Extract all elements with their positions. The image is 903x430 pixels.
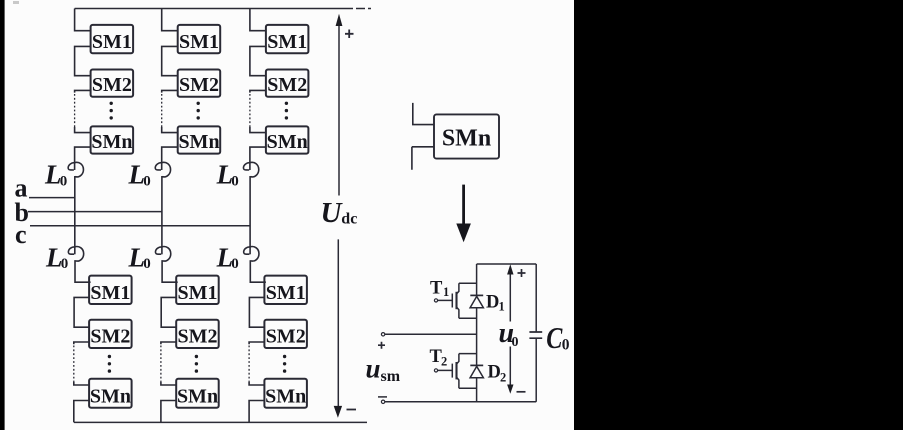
svg-text:SM1: SM1 xyxy=(92,31,132,53)
svg-text:SM2: SM2 xyxy=(266,326,306,348)
svg-text:sm: sm xyxy=(381,368,401,385)
svg-text:SMn: SMn xyxy=(265,386,306,408)
svg-text:D: D xyxy=(488,363,501,383)
svg-text:SMn: SMn xyxy=(90,386,131,408)
svg-text:0: 0 xyxy=(143,173,151,189)
svg-text:SMn: SMn xyxy=(267,131,308,153)
svg-text:0: 0 xyxy=(60,173,67,189)
svg-text:SMn: SMn xyxy=(442,126,491,152)
svg-text:1: 1 xyxy=(443,285,449,299)
svg-text:1: 1 xyxy=(499,300,505,314)
svg-text:SM2: SM2 xyxy=(267,74,307,96)
svg-text:SMn: SMn xyxy=(178,131,219,153)
svg-text:SM2: SM2 xyxy=(92,74,132,96)
svg-text:0: 0 xyxy=(562,336,570,353)
svg-text:u: u xyxy=(366,354,381,384)
svg-text:2: 2 xyxy=(441,355,447,369)
svg-text:SM1: SM1 xyxy=(90,282,130,304)
svg-text:SMn: SMn xyxy=(177,386,218,408)
svg-text:0: 0 xyxy=(231,173,239,189)
svg-text:D: D xyxy=(486,292,499,312)
svg-text:SMn: SMn xyxy=(91,131,132,153)
svg-text:SM1: SM1 xyxy=(267,31,307,53)
svg-text:2: 2 xyxy=(500,371,506,385)
svg-text:c: c xyxy=(15,220,27,249)
svg-text:C: C xyxy=(546,321,563,356)
svg-text:SM2: SM2 xyxy=(178,326,218,348)
svg-text:0: 0 xyxy=(512,335,519,350)
svg-text:SM2: SM2 xyxy=(90,326,130,348)
svg-text:SM1: SM1 xyxy=(266,282,306,304)
svg-text:SM2: SM2 xyxy=(179,74,219,96)
svg-text:0: 0 xyxy=(143,256,151,272)
svg-text:SM1: SM1 xyxy=(179,31,219,53)
svg-text:SM1: SM1 xyxy=(178,282,218,304)
svg-text:U: U xyxy=(321,197,344,229)
svg-text:0: 0 xyxy=(61,256,68,272)
svg-text:T: T xyxy=(430,279,443,299)
svg-text:0: 0 xyxy=(231,256,239,272)
svg-text:dc: dc xyxy=(341,211,357,228)
